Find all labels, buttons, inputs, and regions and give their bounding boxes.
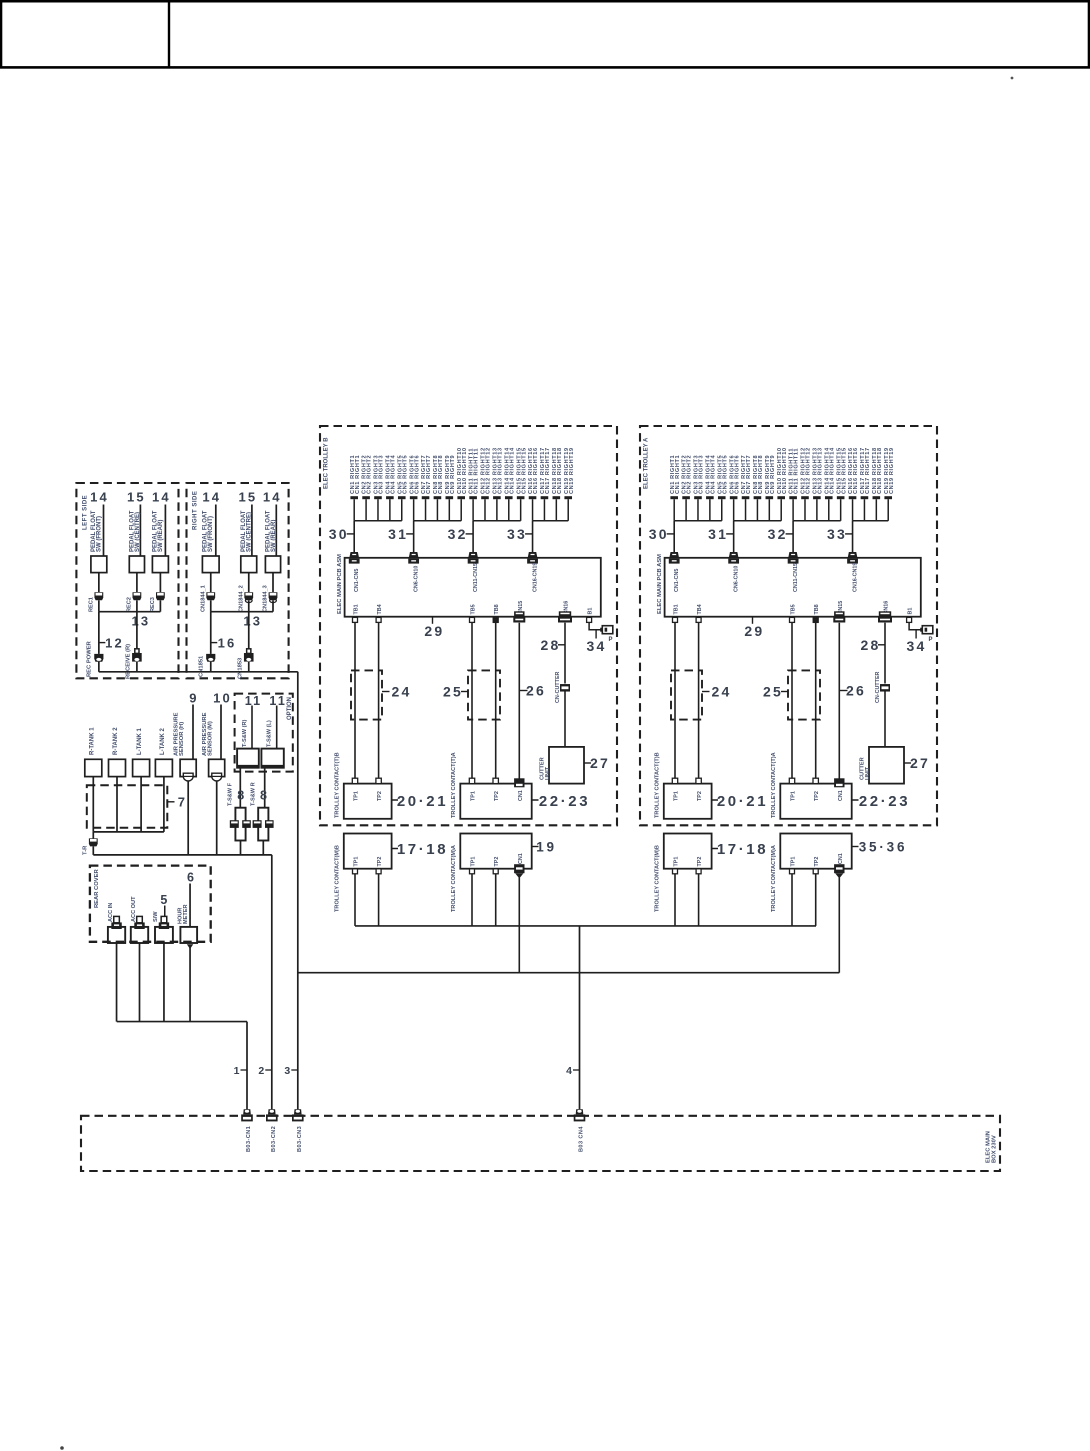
unit S/W <box>155 927 173 943</box>
svg-text:CN13 RIGHT13: CN13 RIGHT13 <box>817 447 823 494</box>
connector REC1 <box>94 592 103 600</box>
svg-text:TROLLEY CONTACT(M)B: TROLLEY CONTACT(M)B <box>655 845 661 912</box>
svg-text:34: 34 <box>907 638 927 654</box>
svg-text:ELEC TROLLEY A: ELEC TROLLEY A <box>644 437 650 489</box>
svg-text:CN5 RIGHT5: CN5 RIGHT5 <box>402 455 408 494</box>
svg-text:20·21: 20·21 <box>397 793 448 810</box>
connector CN1851 <box>206 654 215 662</box>
tick <box>573 1069 580 1071</box>
tick <box>712 799 718 801</box>
svg-text:T-S&W (R): T-S&W (R) <box>242 720 248 747</box>
tick <box>406 533 414 535</box>
connector CN1844_3 <box>269 592 278 602</box>
wire to connector 2 <box>271 855 273 1110</box>
svg-text:25: 25 <box>443 684 463 700</box>
tick <box>265 1069 272 1071</box>
svg-text:29: 29 <box>424 623 444 639</box>
wire <box>378 874 380 926</box>
svg-text:3: 3 <box>284 1065 290 1077</box>
svg-text:CN1844_3: CN1844_3 <box>263 585 269 612</box>
wire <box>564 623 566 684</box>
wire <box>532 521 534 553</box>
wire <box>210 573 212 592</box>
svg-text:CN10 RIGHT10: CN10 RIGHT10 <box>462 447 468 494</box>
wire <box>136 612 138 650</box>
svg-text:CN4 RIGHT4: CN4 RIGHT4 <box>390 454 396 494</box>
wire <box>189 947 191 1022</box>
svg-text:16: 16 <box>218 636 237 651</box>
svg-text:TP2: TP2 <box>814 791 820 801</box>
svg-text:BOX 230V: BOX 230V <box>992 1135 998 1163</box>
svg-text:ELEC MAIN PCB ASM: ELEC MAIN PCB ASM <box>657 554 663 614</box>
svg-text:28: 28 <box>861 637 881 653</box>
svg-text:14: 14 <box>263 490 282 505</box>
svg-text:CN6-CN10: CN6-CN10 <box>414 566 420 592</box>
wire to plug 34 <box>589 623 602 630</box>
connector B03-CN3 <box>292 1109 304 1121</box>
tick <box>904 762 911 764</box>
connector CN6-CN10 <box>408 552 419 564</box>
svg-text:CN4 RIGHT4: CN4 RIGHT4 <box>710 454 716 494</box>
svg-text:TROLLEY CONTACT(M)A: TROLLEY CONTACT(M)A <box>771 845 777 912</box>
svg-text:20·21: 20·21 <box>717 793 768 810</box>
svg-text:26: 26 <box>526 683 546 699</box>
svg-text:CN1: CN1 <box>838 853 844 864</box>
svg-text:6: 6 <box>187 871 196 885</box>
unit ACC IN <box>108 927 125 943</box>
svg-text:CN11-CN15: CN11-CN15 <box>793 563 799 592</box>
svg-text:CN1 RIGHT1: CN1 RIGHT1 <box>355 455 361 494</box>
wire <box>98 612 100 654</box>
svg-text:CN5 RIGHT5: CN5 RIGHT5 <box>722 455 728 494</box>
svg-text:TB5: TB5 <box>471 604 477 614</box>
svg-text:13: 13 <box>243 614 262 629</box>
svg-text:R-TANK 1: R-TANK 1 <box>89 727 95 755</box>
trolley contact (T)A box 22 23 <box>780 784 851 819</box>
wire <box>495 623 497 780</box>
svg-text:33: 33 <box>507 526 527 542</box>
svg-text:T-S&W R: T-S&W R <box>250 782 256 806</box>
plug ACC OUT <box>134 916 144 929</box>
svg-text:CN7 RIGHT7: CN7 RIGHT7 <box>426 455 432 494</box>
svg-text:CN19 RIGHT19: CN19 RIGHT19 <box>569 447 575 494</box>
option dashed box <box>235 694 293 772</box>
wire <box>189 884 191 927</box>
wire trolley bus TP <box>355 925 816 927</box>
tick <box>667 533 675 535</box>
connector CN1-CN5 <box>669 552 680 564</box>
wire group 32 collector <box>473 520 521 522</box>
cutter unit 27 <box>549 747 584 784</box>
elec trolley A dashed box <box>640 426 937 825</box>
svg-text:CN12 RIGHT12: CN12 RIGHT12 <box>806 447 812 494</box>
tick <box>845 533 853 535</box>
svg-text:24: 24 <box>712 684 732 700</box>
wire pedal ground bus <box>99 671 298 673</box>
connector CN11-CN15 <box>788 552 799 564</box>
trolley contact (T)A box 22 23 <box>460 784 531 819</box>
elec main pcb B <box>345 558 601 617</box>
connector CN1844_1 <box>206 592 215 600</box>
RIGHT SIDE pedal switch group box <box>187 483 289 678</box>
svg-text:S/W: S/W <box>153 911 159 922</box>
wire <box>248 612 250 650</box>
svg-text:CN1-CN5: CN1-CN5 <box>354 569 360 592</box>
sensor housing dashed box 7 <box>87 785 168 827</box>
svg-text:9: 9 <box>189 690 198 705</box>
svg-text:SW (REAR): SW (REAR) <box>271 520 277 552</box>
trolley contact (M)B box 17 18 <box>344 834 392 869</box>
wire <box>472 521 474 553</box>
svg-text:32: 32 <box>768 526 788 542</box>
svg-text:CN16-CN19: CN16-CN19 <box>853 563 859 592</box>
svg-text:CN1851: CN1851 <box>198 655 204 677</box>
wire junction bus <box>211 611 273 613</box>
svg-text:25: 25 <box>763 684 783 700</box>
svg-text:R-TANK 2: R-TANK 2 <box>113 727 119 755</box>
svg-text:CN17 RIGHT17: CN17 RIGHT17 <box>865 447 871 494</box>
wire <box>210 612 212 654</box>
tick <box>878 644 885 646</box>
tick <box>211 642 218 644</box>
connector REC3 <box>156 592 165 600</box>
trolley contact (M)B box 17 18 <box>664 834 712 869</box>
wire sensor bus <box>93 854 271 856</box>
svg-text:7: 7 <box>178 794 187 809</box>
svg-text:CN8 RIGHT8: CN8 RIGHT8 <box>438 455 444 494</box>
air pressure sensor (M) <box>209 759 225 776</box>
title block table <box>1 1 1089 67</box>
wire <box>733 521 735 553</box>
tank unit L-TANK 1 <box>133 759 150 776</box>
wire group 32 collector <box>793 520 841 522</box>
svg-text:SW (REAR): SW (REAR) <box>158 520 164 552</box>
svg-text:B1: B1 <box>588 608 594 615</box>
wire <box>187 782 189 855</box>
tick <box>461 691 468 693</box>
wire 26 line <box>518 623 520 779</box>
svg-text:L-TANK 1: L-TANK 1 <box>137 727 143 755</box>
wire <box>136 662 138 672</box>
svg-text:B1: B1 <box>908 608 914 615</box>
svg-text:17·18: 17·18 <box>397 841 448 858</box>
tick <box>852 799 859 801</box>
wire group 31 collector <box>414 520 462 522</box>
svg-text:RECEIVE (R): RECEIVE (R) <box>125 644 131 679</box>
wire to connector 1 <box>246 1022 248 1110</box>
dashed box 25 <box>788 670 820 719</box>
svg-text:34: 34 <box>587 638 607 654</box>
svg-text:22·23: 22·23 <box>539 793 590 810</box>
svg-text:TP2: TP2 <box>697 857 703 867</box>
svg-text:TP1: TP1 <box>674 857 680 867</box>
svg-text:SW (CENTRE): SW (CENTRE) <box>135 512 141 552</box>
svg-text:30: 30 <box>649 526 669 542</box>
svg-text:31: 31 <box>708 526 728 542</box>
tank unit R-TANK 1 <box>85 759 102 776</box>
tick <box>712 848 718 850</box>
wire 26 line <box>838 623 840 779</box>
plug 34 <box>600 626 613 634</box>
svg-text:TB8: TB8 <box>494 604 500 614</box>
tick <box>702 691 710 693</box>
svg-text:TP1: TP1 <box>674 791 680 801</box>
svg-text:SW (CENTRE): SW (CENTRE) <box>246 512 252 552</box>
svg-text:CN3 RIGHT3: CN3 RIGHT3 <box>379 455 385 494</box>
pedal float switch LEFT SIDE 3 <box>152 556 168 573</box>
wire <box>163 777 165 832</box>
wire <box>698 874 700 926</box>
svg-text:TROLLEY CONTACT(T)A: TROLLEY CONTACT(T)A <box>771 752 777 818</box>
svg-text:10: 10 <box>213 690 232 705</box>
svg-text:TROLLEY CONTACT(M)B: TROLLEY CONTACT(M)B <box>335 845 341 912</box>
wire <box>791 623 793 780</box>
svg-text:TB1: TB1 <box>674 604 680 614</box>
tick <box>839 690 847 692</box>
wire CN1 drop <box>838 878 840 973</box>
connector CN1-CN5 <box>349 552 360 564</box>
svg-text:METER: METER <box>183 904 189 924</box>
tick <box>532 799 539 801</box>
tick <box>584 762 591 764</box>
svg-text:31: 31 <box>388 526 408 542</box>
tick <box>726 533 734 535</box>
svg-text:CN8 RIGHT8: CN8 RIGHT8 <box>758 455 764 494</box>
option switch T-S&W (L) <box>261 749 283 768</box>
wire <box>164 906 166 917</box>
wire <box>98 600 100 611</box>
svg-text:SW (FRONT): SW (FRONT) <box>208 516 214 552</box>
svg-text:TB4: TB4 <box>377 604 383 614</box>
svg-text:CN16 RIGHT16: CN16 RIGHT16 <box>853 447 859 494</box>
svg-text:CN11-CN15: CN11-CN15 <box>473 563 479 592</box>
wire <box>159 573 161 592</box>
connector REC POWER <box>94 654 103 662</box>
stray dot top right <box>1011 77 1014 80</box>
wire <box>98 662 100 672</box>
trolley contact (M)A box 19 <box>460 834 531 869</box>
svg-text:TP2: TP2 <box>494 857 500 867</box>
svg-text:28: 28 <box>541 637 561 653</box>
svg-text:CN6 RIGHT6: CN6 RIGHT6 <box>414 455 420 494</box>
label 29 tick <box>432 617 434 624</box>
svg-text:13: 13 <box>131 614 150 629</box>
svg-text:P: P <box>609 637 613 643</box>
svg-text:CN1: CN1 <box>518 853 524 864</box>
svg-text:REAR COVER: REAR COVER <box>94 869 100 908</box>
wire <box>192 705 194 760</box>
connector CN11-CN15 <box>468 552 479 564</box>
svg-text:CN1844_2: CN1844_2 <box>238 585 244 612</box>
tick <box>241 1069 248 1071</box>
pedal float switch RIGHT SIDE 1 <box>202 556 219 573</box>
wire <box>140 777 142 832</box>
wire <box>248 600 250 611</box>
svg-text:17·18: 17·18 <box>717 841 768 858</box>
svg-text:CN16-CN19: CN16-CN19 <box>533 563 539 592</box>
pedal float switch RIGHT SIDE 2 <box>241 556 257 573</box>
svg-text:TP2: TP2 <box>377 791 383 801</box>
trolley contact (M)A box 35·36 <box>780 834 851 869</box>
svg-text:UNIT: UNIT <box>865 766 871 780</box>
wire rear cover bus <box>117 1021 247 1023</box>
fuse holder T-S&W F <box>235 808 245 841</box>
wire to plug 34 <box>909 623 922 630</box>
tick <box>558 644 565 646</box>
wire <box>220 705 222 760</box>
tick <box>595 630 597 639</box>
svg-text:14: 14 <box>202 490 221 505</box>
svg-text:1: 1 <box>234 1065 240 1077</box>
svg-text:8: 8 <box>260 789 269 803</box>
wire <box>163 943 165 1022</box>
svg-text:ELEC MAIN PCB ASM: ELEC MAIN PCB ASM <box>337 554 343 614</box>
svg-text:TROLLEY CONTACT(T)B: TROLLEY CONTACT(T)B <box>335 752 341 818</box>
wire <box>791 874 793 926</box>
connector sensor outlet <box>212 773 222 781</box>
svg-text:CN16 RIGHT16: CN16 RIGHT16 <box>533 447 539 494</box>
unit ACC OUT <box>131 927 148 943</box>
svg-text:5: 5 <box>160 893 169 907</box>
wire <box>815 623 817 780</box>
svg-text:19: 19 <box>536 839 557 854</box>
tank unit L-TANK 2 <box>155 759 172 776</box>
svg-text:CN11 RIGHT11: CN11 RIGHT11 <box>794 448 800 494</box>
wire <box>354 623 356 780</box>
connector CN16-CN19 <box>527 552 538 564</box>
elec main box dashed <box>81 1116 1000 1171</box>
wire <box>248 573 250 592</box>
svg-text:27: 27 <box>590 755 610 771</box>
receiver plug RECEIVE (R) <box>132 649 142 662</box>
wire <box>92 832 94 839</box>
svg-text:CN15 RIGHT15: CN15 RIGHT15 <box>841 447 847 494</box>
svg-text:CN19 RIGHT19: CN19 RIGHT19 <box>889 447 895 494</box>
svg-text:TP1: TP1 <box>354 791 360 801</box>
svg-text:TP1: TP1 <box>791 791 797 801</box>
svg-text:TB4: TB4 <box>697 604 703 614</box>
svg-text:TB1: TB1 <box>354 604 360 614</box>
svg-text:TP2: TP2 <box>697 791 703 801</box>
svg-text:2: 2 <box>258 1065 264 1077</box>
svg-text:REC3: REC3 <box>150 597 156 612</box>
wire <box>471 623 473 780</box>
wire <box>139 943 141 1022</box>
stray dot bottom left <box>60 1446 64 1450</box>
svg-text:REC2: REC2 <box>126 597 132 612</box>
svg-text:TROLLEY CONTACT(T)B: TROLLEY CONTACT(T)B <box>655 752 661 818</box>
plug ACC IN <box>111 916 121 929</box>
connector T-R <box>89 838 98 846</box>
svg-text:CN6-CN10: CN6-CN10 <box>734 566 740 592</box>
wire <box>674 623 676 780</box>
svg-text:CN1853: CN1853 <box>237 657 243 679</box>
svg-text:11: 11 <box>245 694 263 708</box>
air pressure sensor (H) <box>180 759 196 776</box>
svg-text:CN9 RIGHT9: CN9 RIGHT9 <box>770 455 776 494</box>
svg-text:15: 15 <box>238 490 257 505</box>
tick <box>99 642 106 644</box>
connector CN1844_2 <box>244 592 253 602</box>
svg-text:B03 CN4: B03 CN4 <box>579 1126 585 1152</box>
tick <box>167 801 174 803</box>
wire <box>792 521 794 553</box>
svg-text:15: 15 <box>127 490 146 505</box>
svg-text:T-S&W (L): T-S&W (L) <box>267 720 273 747</box>
svg-text:CN18 RIGHT18: CN18 RIGHT18 <box>877 447 883 494</box>
svg-text:CN7 RIGHT7: CN7 RIGHT7 <box>746 455 752 494</box>
wire group 30 collector <box>354 520 402 522</box>
pedal float switch LEFT SIDE 1 <box>91 556 107 573</box>
tank unit R-TANK 2 <box>109 759 126 776</box>
tick <box>392 799 398 801</box>
svg-text:TP1: TP1 <box>471 791 477 801</box>
elec trolley B dashed box <box>320 426 617 825</box>
fuse holder T-S&W R <box>258 808 268 841</box>
svg-text:TP2: TP2 <box>494 791 500 801</box>
svg-text:32: 32 <box>448 526 468 542</box>
svg-text:CN10 RIGHT10: CN10 RIGHT10 <box>782 447 788 494</box>
svg-text:CN1: CN1 <box>838 790 844 801</box>
svg-text:CN14 RIGHT14: CN14 RIGHT14 <box>829 447 835 494</box>
wire to connector 4 <box>579 926 581 1110</box>
wire group 33 collector <box>853 520 889 522</box>
option switch T-S&W (R) <box>237 749 259 768</box>
wire <box>210 662 212 672</box>
wire <box>262 841 264 855</box>
tick <box>291 1069 298 1071</box>
wire <box>98 573 100 592</box>
svg-text:14: 14 <box>90 490 109 505</box>
tick <box>532 846 539 848</box>
wire <box>92 777 94 832</box>
svg-text:TP1: TP1 <box>471 857 477 867</box>
tick <box>525 533 533 535</box>
svg-text:REC POWER: REC POWER <box>86 640 92 677</box>
wire to connector 3 <box>297 672 299 1110</box>
wire <box>248 662 250 672</box>
svg-text:TB5: TB5 <box>791 604 797 614</box>
svg-text:CN14 RIGHT14: CN14 RIGHT14 <box>509 447 515 494</box>
wire <box>251 706 253 750</box>
tick <box>915 630 917 639</box>
svg-text:SENSOR (M): SENSOR (M) <box>208 721 214 756</box>
tick <box>852 846 859 848</box>
connector B03-CN2 <box>266 1109 278 1121</box>
svg-text:T-R: T-R <box>83 845 89 855</box>
wire <box>240 841 242 855</box>
wire <box>674 874 676 926</box>
label 29 tick <box>752 617 754 624</box>
svg-text:CN6 RIGHT6: CN6 RIGHT6 <box>734 455 740 494</box>
svg-text:LEFT SIDE: LEFT SIDE <box>82 495 88 530</box>
dashed box 24 <box>351 670 382 719</box>
wire trolley bus CN <box>298 972 840 974</box>
svg-text:TP2: TP2 <box>377 857 383 867</box>
svg-text:TROLLEY CONTACT(M)A: TROLLEY CONTACT(M)A <box>451 845 457 912</box>
svg-text:SENSOR (H): SENSOR (H) <box>179 722 185 756</box>
wire <box>354 874 356 926</box>
unit HOUR METER <box>180 927 197 943</box>
tick <box>347 533 355 535</box>
svg-text:TROLLEY CONTACT(T)A: TROLLEY CONTACT(T)A <box>451 752 457 818</box>
svg-text:B03-CN2: B03-CN2 <box>271 1126 277 1152</box>
connector B03-CN1 <box>241 1109 253 1121</box>
wire CN1 drop <box>518 878 520 973</box>
wire <box>413 521 415 553</box>
svg-text:33: 33 <box>827 526 847 542</box>
arrow <box>187 944 193 949</box>
